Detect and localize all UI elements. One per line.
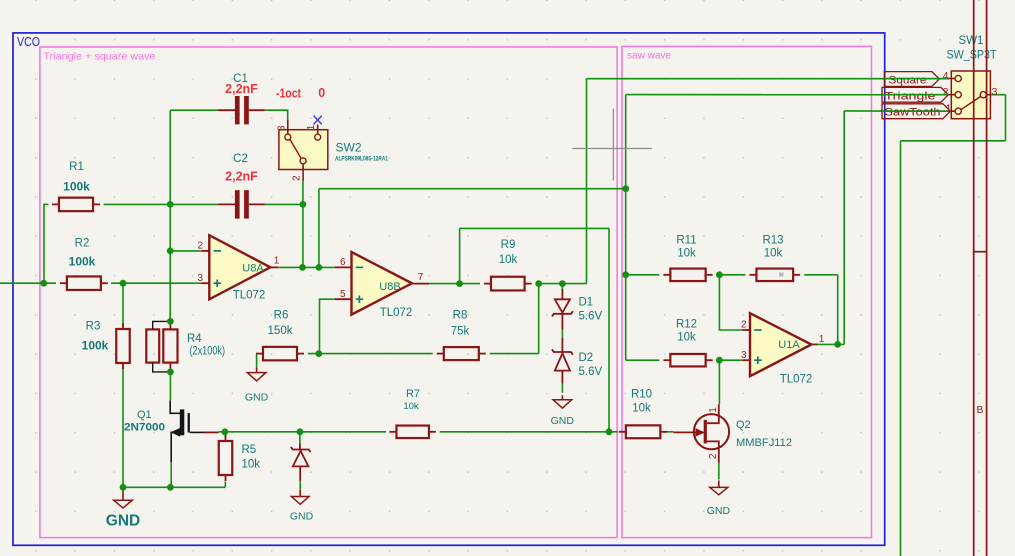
svg-text:Q2: Q2: [736, 419, 751, 431]
resistor R1: [52, 203, 59, 205]
svg-text:GND: GND: [551, 415, 575, 427]
junction 18: [606, 428, 613, 435]
global label Triangle: [882, 87, 948, 102]
op-amp U8A: [201, 250, 209, 252]
wire U8A out to U8B pin6: [278, 266, 335, 268]
wire U1A out: [818, 343, 845, 345]
junction 2: [120, 280, 127, 287]
svg-text:R3: R3: [86, 321, 101, 333]
svg-text:7: 7: [418, 272, 424, 283]
capacitor C1: [218, 109, 235, 111]
svg-text:saw wave: saw wave: [627, 50, 671, 62]
svg-text:GND: GND: [245, 392, 269, 404]
ground at D2: [561, 395, 563, 400]
wire to R12: [626, 359, 660, 361]
junction 7: [167, 484, 174, 491]
wire over Square label: [884, 78, 948, 80]
svg-text:2: 2: [708, 453, 719, 459]
wire feedback riser: [459, 228, 461, 283]
wire saw out riser: [843, 111, 845, 345]
junction 3: [167, 201, 174, 208]
wire Q1 gate line left: [219, 431, 387, 433]
svg-text:1: 1: [946, 103, 952, 115]
svg-text:Q1: Q1: [137, 409, 152, 421]
svg-text:ALPSRK09L08S-12RA1: ALPSRK09L08S-12RA1: [335, 155, 388, 162]
wire C2 right: [265, 203, 303, 205]
junction 12: [299, 264, 306, 271]
wire to R11: [626, 274, 660, 276]
svg-text:U8B: U8B: [379, 281, 400, 293]
svg-text:MMBFJ112: MMBFJ112: [736, 437, 792, 449]
svg-text:10k: 10k: [632, 403, 651, 415]
switch SW2: [279, 130, 328, 170]
wire R3 top: [122, 283, 124, 324]
wire out to bottom edge: [900, 141, 902, 556]
svg-text:VCO: VCO: [17, 35, 40, 49]
diode D1: [561, 289, 563, 299]
wire R6 to GND: [256, 354, 258, 370]
svg-text:R6: R6: [274, 310, 289, 322]
svg-text:3: 3: [197, 273, 203, 284]
wire R6 R8 net: [308, 353, 433, 355]
svg-text:6: 6: [340, 257, 346, 268]
svg-text:10k: 10k: [242, 459, 261, 471]
svg-text:1: 1: [306, 124, 317, 130]
resistor R10: [619, 431, 626, 433]
svg-text:-1oct: -1oct: [276, 87, 302, 101]
wire R3 bottom: [122, 368, 124, 487]
svg-text:75k: 75k: [451, 325, 470, 337]
wire R13 feedback riser: [837, 275, 839, 345]
svg-text:10k: 10k: [677, 248, 696, 260]
wire node to U8A pin2: [170, 250, 201, 252]
svg-text:R12: R12: [676, 319, 697, 331]
svg-text:GND: GND: [707, 505, 731, 517]
svg-text:U1A: U1A: [778, 339, 800, 351]
svg-text:3: 3: [277, 125, 288, 131]
wire SW2 pin2 down to output node: [302, 181, 304, 267]
wire R5 bottom: [224, 482, 226, 488]
junction 9: [222, 428, 229, 435]
svg-text:3: 3: [741, 350, 747, 361]
svg-text:D2: D2: [579, 352, 594, 364]
svg-text:R7: R7: [406, 388, 420, 400]
wire C2 left: [170, 203, 218, 205]
wire bottom gnd rail: [123, 486, 225, 488]
wire square riser: [586, 79, 588, 284]
section box Triangle + square wave: [40, 47, 617, 538]
junction 11: [300, 201, 307, 208]
resistor R12: [663, 359, 670, 361]
wire R2 to U8A pin3: [111, 282, 201, 284]
svg-text:100k: 100k: [63, 180, 90, 194]
switch SW1: [951, 71, 990, 119]
wire Q1 source down: [170, 462, 172, 487]
svg-text:5: 5: [340, 289, 346, 300]
svg-text:0: 0: [318, 86, 325, 100]
capacitor C2: [218, 203, 235, 205]
resistor R6: [256, 353, 263, 355]
wire square to label: [587, 78, 949, 80]
junction 6: [167, 369, 174, 376]
svg-text:TL072: TL072: [380, 307, 413, 319]
wire clamp diode bottom: [299, 481, 301, 490]
wire over SawTooth label: [882, 110, 948, 112]
wire D1 top: [561, 284, 563, 289]
svg-text:GND: GND: [290, 511, 314, 523]
transistor Q2: [694, 414, 729, 449]
svg-text:2: 2: [197, 241, 203, 252]
ground at R6: [256, 368, 258, 373]
svg-text:SW2: SW2: [336, 141, 362, 155]
svg-text:R11: R11: [676, 235, 696, 247]
ground at Q2: [718, 480, 720, 487]
wire SW1 out down: [1005, 95, 1007, 141]
svg-text:10k: 10k: [764, 248, 783, 260]
svg-text:Triangle: Triangle: [885, 90, 936, 102]
junction 1: [40, 280, 47, 287]
resistor R4 pair: [146, 329, 159, 362]
wire saw input vertical: [625, 95, 627, 361]
resistor R7: [389, 431, 396, 433]
junction 13: [316, 264, 323, 271]
svg-text:10k: 10k: [499, 254, 518, 266]
wire R10 to Q2 gate: [660, 431, 673, 433]
resistor R3: [122, 323, 124, 329]
junction 14: [315, 350, 322, 357]
svg-text:R5: R5: [242, 444, 257, 456]
junction 19: [622, 185, 629, 192]
wire saw to label: [844, 110, 948, 112]
junction 16: [535, 280, 542, 287]
svg-text:2: 2: [741, 320, 747, 331]
wire triangle-out to saw section: [319, 188, 626, 190]
svg-text:2N7000: 2N7000: [124, 422, 165, 434]
junction 17: [559, 280, 566, 287]
wire R1 to C-node: [104, 203, 171, 205]
svg-text:2: 2: [292, 175, 303, 181]
wire R4 to Q1 drain: [169, 372, 171, 401]
svg-text:U8A: U8A: [242, 262, 264, 274]
wire over Triangle label: [882, 94, 948, 96]
svg-text:R9: R9: [501, 239, 516, 251]
global label SawTooth: [882, 104, 950, 119]
svg-text:R1: R1: [69, 161, 84, 173]
wire triangle-out riser: [318, 189, 320, 268]
svg-text:Triangle + square wave: Triangle + square wave: [44, 51, 156, 63]
diode D2: [561, 338, 563, 352]
wire C1 right to SW2 pin3: [265, 110, 288, 119]
svg-text:100k: 100k: [82, 339, 109, 353]
svg-text:C2: C2: [233, 153, 248, 165]
op-amp U1A: [742, 329, 750, 331]
wire SW1 pin3 out: [990, 94, 1005, 96]
cursor crosshair: [572, 148, 652, 150]
svg-text:R10: R10: [631, 389, 652, 401]
wire junction to U1A pin2: [719, 275, 742, 330]
wire node A riser to R1: [44, 204, 49, 283]
svg-text:1: 1: [819, 334, 825, 345]
op-amp U8B: [335, 266, 352, 268]
wire clamp diode top: [299, 432, 301, 443]
svg-text:SW1: SW1: [959, 35, 984, 47]
diode D3 clamp: [299, 443, 301, 449]
junction 22: [716, 357, 723, 364]
svg-text:10k: 10k: [677, 332, 696, 344]
global label Square: [884, 72, 939, 87]
wire C1 left: [170, 109, 218, 111]
section box saw wave: [622, 46, 872, 537]
wire R9 to clamp node: [536, 283, 587, 285]
svg-text:5.6V: 5.6V: [579, 311, 603, 323]
wire D1-D2 middle: [561, 330, 563, 338]
junction 5: [167, 318, 174, 325]
wire R12 to U1A pin3: [717, 359, 743, 361]
wire U8B out to R9: [429, 283, 480, 285]
wire R12 node down to Q2: [718, 360, 720, 404]
wire R8 right: [490, 353, 539, 355]
wire R11 to R13: [717, 274, 746, 276]
junction 23: [834, 341, 841, 348]
sheet VCO box: [13, 33, 885, 545]
resistor R11: [663, 274, 670, 276]
resistor R5: [225, 435, 227, 441]
wire R13 right: [804, 274, 838, 276]
svg-text:100k: 100k: [69, 254, 96, 268]
bus line right: [986, 0, 988, 556]
wire Q2 source down: [718, 463, 720, 480]
svg-text:2,2nF: 2,2nF: [225, 82, 258, 96]
svg-text:10k: 10k: [403, 401, 419, 412]
svg-text:GND: GND: [106, 513, 140, 530]
junction 21: [716, 271, 723, 278]
svg-text:1: 1: [708, 407, 719, 413]
junction 4: [167, 248, 174, 255]
svg-text:2,2nF: 2,2nF: [225, 169, 258, 183]
svg-text:TL072: TL072: [233, 290, 266, 302]
wire U8B pin5 elbow: [320, 299, 335, 353]
svg-text:R2: R2: [75, 238, 90, 250]
svg-text:150k: 150k: [268, 325, 293, 337]
svg-text:1: 1: [274, 256, 280, 267]
ground at Q1: [122, 490, 124, 500]
junction 15: [456, 280, 463, 287]
svg-text:R4: R4: [187, 333, 202, 345]
svg-text:SW_SP3T: SW_SP3T: [947, 50, 997, 62]
junction 10: [297, 428, 304, 435]
junction 20: [622, 271, 629, 278]
svg-text:D1: D1: [579, 297, 594, 309]
svg-text:TL072: TL072: [780, 374, 813, 386]
transistor Q1: [170, 400, 180, 413]
wire inverting-input vertical: [169, 110, 171, 321]
svg-text:B: B: [977, 405, 984, 416]
ground at clamp diode: [299, 490, 301, 497]
resistor R13: [749, 274, 756, 276]
wire D2 bottom: [561, 384, 563, 393]
svg-text:SawTooth: SawTooth: [885, 107, 941, 119]
wire triangle to label: [626, 94, 949, 96]
wire clamp to R8: [538, 284, 540, 354]
resistor R2: [60, 282, 67, 284]
svg-text:R13: R13: [762, 235, 783, 247]
resistor R8: [437, 353, 444, 355]
wire feedback down to gate line: [608, 228, 610, 431]
wire out horizontal: [901, 140, 1006, 142]
wire R5 top: [224, 432, 226, 437]
wire gate line middle: [440, 431, 618, 433]
svg-text:R8: R8: [453, 309, 468, 321]
svg-text:4: 4: [943, 70, 949, 82]
svg-text:5.6V: 5.6V: [579, 366, 603, 378]
junction 8: [120, 484, 127, 491]
resistor R9: [484, 283, 491, 285]
wire feedback top: [460, 227, 609, 229]
bus crossbar: [974, 251, 987, 253]
wire input to R2: [0, 282, 56, 284]
svg-text:2: 2: [943, 86, 949, 98]
bus line left: [973, 0, 975, 556]
no-connect X on SW2 pin 1: [314, 116, 322, 125]
svg-text:3: 3: [992, 86, 998, 98]
svg-text:(2x100k): (2x100k): [190, 346, 226, 358]
svg-text:Square: Square: [889, 75, 927, 87]
